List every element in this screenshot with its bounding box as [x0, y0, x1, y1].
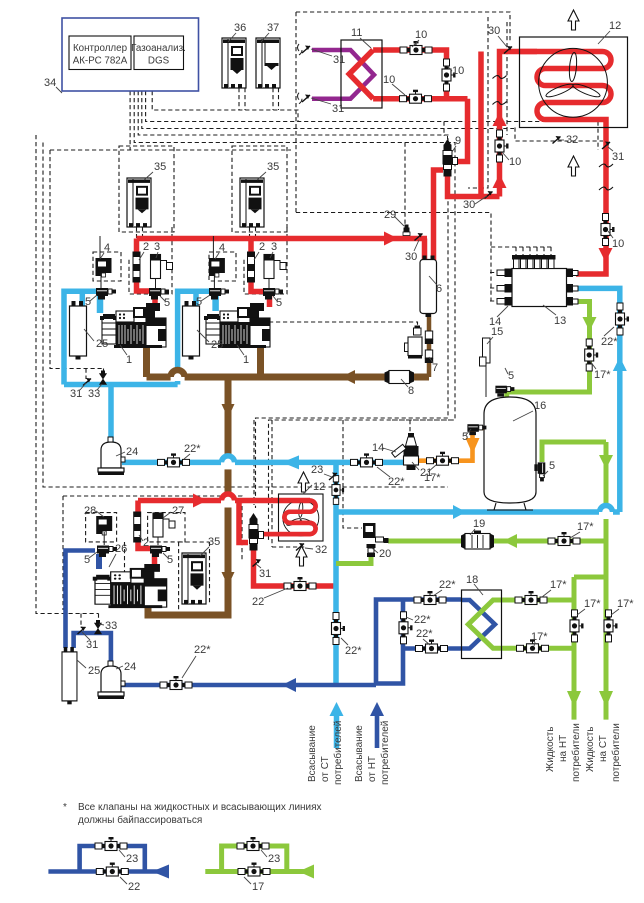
- svg-text:22*: 22*: [439, 579, 456, 591]
- svg-text:30: 30: [488, 25, 500, 37]
- svg-text:Жидкость: Жидкость: [585, 727, 596, 773]
- svg-text:Контроллер: Контроллер: [73, 43, 128, 54]
- svg-text:4: 4: [219, 242, 225, 254]
- svg-text:17*: 17*: [577, 521, 594, 533]
- svg-text:1: 1: [243, 354, 249, 366]
- svg-text:23: 23: [126, 853, 138, 865]
- svg-text:2: 2: [259, 241, 265, 253]
- svg-text:20: 20: [379, 548, 391, 560]
- svg-text:3: 3: [271, 241, 277, 253]
- svg-text:3: 3: [154, 241, 160, 253]
- svg-text:23: 23: [311, 464, 323, 476]
- svg-text:17: 17: [252, 881, 264, 893]
- svg-text:8: 8: [408, 385, 414, 397]
- svg-text:от СТ: от СТ: [320, 756, 331, 782]
- svg-text:37: 37: [267, 22, 279, 34]
- svg-text:13: 13: [554, 315, 566, 327]
- svg-text:26: 26: [115, 543, 127, 555]
- svg-text:31: 31: [333, 54, 345, 66]
- svg-text:31: 31: [332, 103, 344, 115]
- svg-text:5: 5: [196, 296, 202, 308]
- svg-text:17*: 17*: [424, 472, 441, 484]
- svg-text:31: 31: [259, 568, 271, 580]
- svg-text:22: 22: [252, 596, 264, 608]
- svg-text:потребителей: потребителей: [332, 721, 344, 785]
- svg-text:Всасывание: Всасывание: [307, 725, 318, 782]
- svg-text:22*: 22*: [414, 614, 431, 626]
- svg-text:35: 35: [267, 161, 279, 173]
- svg-text:5: 5: [167, 554, 173, 566]
- svg-text:Всасывание: Всасывание: [354, 725, 365, 782]
- svg-text:АК-РС 782А: АК-РС 782А: [73, 56, 128, 67]
- svg-text:7: 7: [432, 362, 438, 374]
- svg-text:17*: 17*: [550, 579, 567, 591]
- svg-text:5: 5: [462, 431, 468, 443]
- svg-text:потребители: потребители: [610, 723, 622, 782]
- svg-text:4: 4: [104, 242, 110, 254]
- svg-text:22*: 22*: [601, 336, 618, 348]
- svg-text:12: 12: [609, 20, 621, 32]
- svg-text:22*: 22*: [416, 628, 433, 640]
- svg-text:35: 35: [208, 536, 220, 548]
- svg-text:16: 16: [534, 400, 546, 412]
- svg-text:потребителей: потребителей: [379, 721, 391, 785]
- svg-text:5: 5: [84, 554, 90, 566]
- svg-text:5: 5: [549, 460, 555, 472]
- svg-text:11: 11: [351, 27, 362, 39]
- svg-text:должны байпассироваться: должны байпассироваться: [78, 814, 202, 826]
- svg-text:на НТ: на НТ: [558, 735, 569, 762]
- svg-text:24: 24: [126, 446, 138, 458]
- svg-text:19: 19: [473, 518, 485, 530]
- svg-text:10: 10: [452, 65, 464, 77]
- svg-text:5: 5: [508, 370, 514, 382]
- svg-text:17*: 17*: [531, 631, 548, 643]
- svg-text:DGS: DGS: [148, 56, 170, 67]
- svg-text:36: 36: [234, 22, 246, 34]
- svg-text:10: 10: [612, 238, 624, 250]
- svg-text:25: 25: [211, 339, 223, 351]
- svg-text:22*: 22*: [345, 645, 362, 657]
- svg-text:на СТ: на СТ: [598, 735, 609, 762]
- svg-text:10: 10: [509, 156, 521, 168]
- svg-text:14: 14: [372, 442, 384, 454]
- svg-text:12: 12: [313, 481, 325, 493]
- svg-text:Жидкость: Жидкость: [545, 727, 556, 773]
- svg-text:30: 30: [463, 199, 475, 211]
- svg-text:22*: 22*: [388, 476, 405, 488]
- svg-text:10: 10: [383, 74, 395, 86]
- svg-text:потребители: потребители: [570, 723, 582, 782]
- svg-text:1: 1: [126, 354, 132, 366]
- svg-text:5: 5: [164, 297, 170, 309]
- svg-text:30: 30: [405, 251, 417, 263]
- svg-text:17*: 17*: [584, 598, 601, 610]
- svg-text:31: 31: [612, 151, 624, 163]
- svg-text:22*: 22*: [184, 443, 201, 455]
- svg-text:25: 25: [88, 665, 100, 677]
- svg-text:32: 32: [315, 544, 327, 556]
- svg-text:Все клапаны на жидкостных и вс: Все клапаны на жидкостных и всасывающих …: [78, 802, 322, 813]
- svg-text:22*: 22*: [194, 644, 211, 656]
- svg-text:31: 31: [86, 639, 98, 651]
- svg-text:22: 22: [128, 881, 140, 893]
- svg-text:15: 15: [491, 326, 503, 338]
- svg-text:33: 33: [88, 388, 100, 400]
- svg-text:18: 18: [466, 574, 478, 586]
- svg-text:23: 23: [268, 853, 280, 865]
- svg-text:2: 2: [143, 241, 149, 253]
- svg-text:*: *: [63, 802, 67, 813]
- svg-text:17*: 17*: [594, 369, 611, 381]
- svg-text:33: 33: [105, 620, 117, 632]
- svg-text:5: 5: [276, 297, 282, 309]
- svg-text:34: 34: [44, 77, 56, 89]
- svg-text:от НТ: от НТ: [367, 756, 378, 782]
- svg-text:5: 5: [85, 296, 91, 308]
- svg-text:Газоанализ.: Газоанализ.: [131, 43, 186, 54]
- svg-text:28: 28: [84, 505, 96, 517]
- svg-text:29: 29: [384, 209, 396, 221]
- svg-text:32: 32: [566, 134, 578, 146]
- svg-text:2: 2: [143, 537, 149, 549]
- svg-text:25: 25: [96, 338, 108, 350]
- svg-text:10: 10: [415, 29, 427, 41]
- svg-text:9: 9: [455, 135, 461, 147]
- svg-text:17*: 17*: [617, 598, 634, 610]
- svg-text:35: 35: [154, 161, 166, 173]
- svg-text:24: 24: [124, 661, 136, 673]
- svg-text:27: 27: [172, 505, 184, 517]
